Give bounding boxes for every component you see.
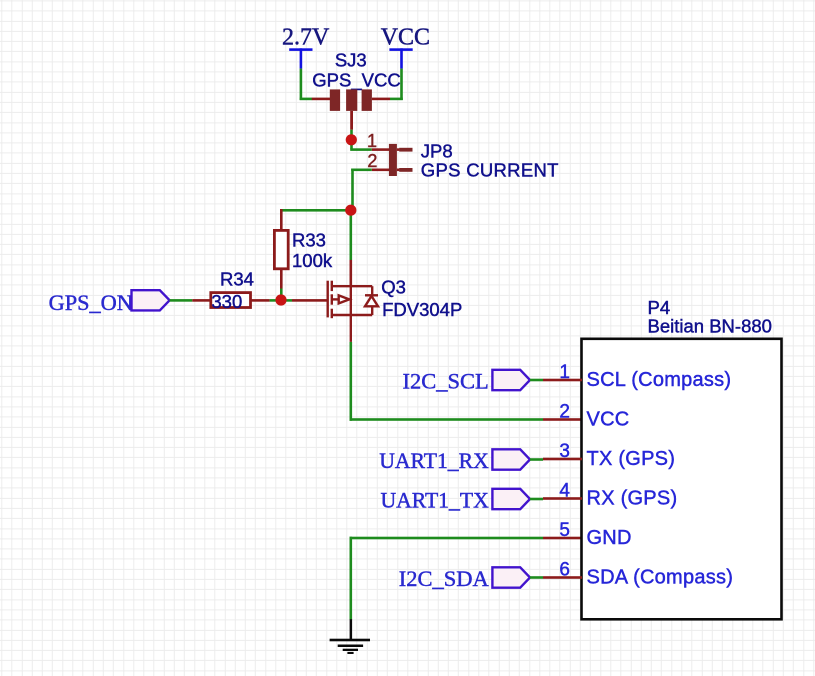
port I2C_SCL — [403, 368, 543, 393]
source rail — [332, 314, 372, 316]
svg-text:R34: R34 — [220, 269, 254, 290]
svg-text:2: 2 — [367, 151, 377, 171]
svg-text:I2C_SDA: I2C_SDA — [399, 566, 490, 591]
svg-text:I2C_SCL: I2C_SCL — [403, 368, 489, 393]
svg-text:R33: R33 — [292, 230, 326, 251]
source arrow — [332, 298, 339, 300]
solder jumper SJ3 — [312, 50, 400, 130]
svg-text:VCC: VCC — [381, 24, 430, 50]
svg-text:UART1_TX: UART1_TX — [380, 488, 489, 512]
connector P4 — [582, 297, 782, 619]
svg-text:100k: 100k — [292, 250, 333, 271]
wire R34 to Q3 gate — [270, 299, 327, 302]
wire node to Q3 drain — [350, 209, 353, 287]
body diode — [371, 286, 373, 294]
port UART1_TX — [380, 488, 543, 512]
wire VCC to SJ3 pad3 — [372, 69, 403, 101]
svg-text:GPS CURRENT: GPS CURRENT — [421, 159, 559, 180]
svg-text:330: 330 — [211, 291, 242, 312]
svg-text:UART1_RX: UART1_RX — [379, 449, 489, 473]
svg-text:2: 2 — [559, 401, 570, 422]
transistor Q3 — [328, 281, 378, 342]
svg-text:RX (GPS): RX (GPS) — [587, 487, 678, 509]
P4 pin 5 — [559, 520, 631, 549]
svg-text:5: 5 — [559, 520, 570, 541]
svg-text:1: 1 — [367, 131, 377, 151]
power port 2.7V — [282, 24, 330, 68]
svg-text:TX (GPS): TX (GPS) — [587, 448, 676, 470]
svg-text:2.7V: 2.7V — [282, 24, 330, 50]
wire 2.7V to SJ3 pad1 — [300, 69, 330, 101]
svg-text:6: 6 — [559, 559, 570, 580]
svg-text:Beitian BN-880: Beitian BN-880 — [648, 315, 772, 336]
drain rail — [332, 285, 372, 287]
junction node R33/R34/gate — [275, 294, 286, 305]
wire SJ3 to JP8 pin1 — [350, 130, 372, 151]
wire node to R33 — [280, 209, 351, 212]
svg-text:FDV304P: FDV304P — [382, 299, 462, 320]
svg-text:1: 1 — [559, 362, 570, 383]
junction node R33/Q3 drain — [345, 205, 356, 216]
svg-text:SDA (Compass): SDA (Compass) — [587, 566, 734, 588]
svg-text:Q3: Q3 — [381, 277, 406, 298]
P4 pin 4 — [543, 480, 677, 509]
wire Q3 source to P4 VCC pin2 — [350, 342, 583, 421]
junction node SJ3/JP8 — [346, 134, 357, 145]
gate bar — [327, 281, 329, 318]
svg-text:3: 3 — [559, 441, 570, 462]
svg-text:GPS_ON: GPS_ON — [49, 290, 133, 315]
P4 pin 1 — [543, 362, 731, 391]
P4 pin 2 — [559, 401, 629, 430]
wire GPS_ON to R34 — [170, 299, 211, 302]
svg-text:SCL (Compass): SCL (Compass) — [587, 369, 732, 391]
P4 pin 6 — [543, 559, 733, 588]
resistor R34 — [211, 269, 270, 312]
wire JP8 pin2 down to node — [351, 169, 372, 211]
drain-source vertical — [350, 286, 352, 315]
svg-text:VCC: VCC — [587, 408, 630, 430]
P4 pin 3 — [543, 441, 675, 470]
channel segments — [331, 281, 333, 291]
port UART1_RX — [379, 449, 543, 473]
svg-text:GND: GND — [587, 527, 632, 549]
svg-text:4: 4 — [559, 480, 570, 501]
svg-text:GPS_VCC: GPS_VCC — [312, 70, 400, 92]
source lead — [350, 315, 352, 342]
port GPS_ON — [49, 290, 170, 315]
resistor R33 — [274, 209, 332, 300]
wire P4 GND pin5 to ground — [350, 537, 583, 620]
svg-text:SJ3: SJ3 — [335, 50, 367, 71]
port I2C_SDA — [399, 566, 543, 591]
power port VCC — [381, 24, 430, 68]
header JP8 — [367, 131, 559, 180]
ground — [330, 619, 370, 654]
